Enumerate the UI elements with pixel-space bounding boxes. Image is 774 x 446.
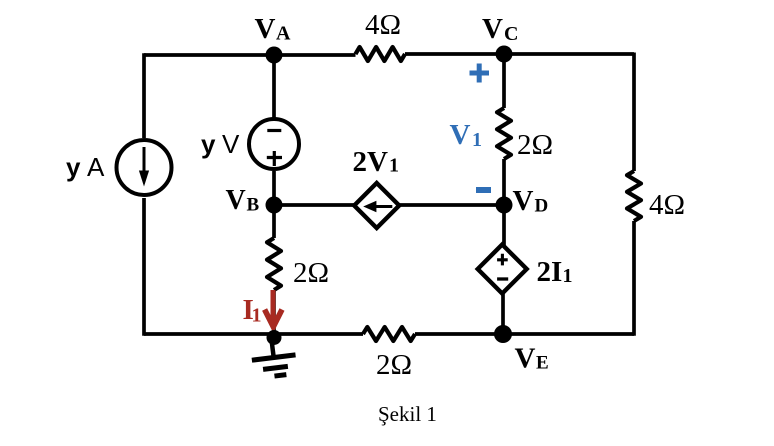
svg-text:2V: 2V xyxy=(353,146,389,178)
wire resistor to ground node xyxy=(272,290,276,334)
svg-text:1: 1 xyxy=(563,265,573,287)
label 2I1 xyxy=(537,256,573,288)
svg-text:B: B xyxy=(247,195,260,216)
label VC xyxy=(482,13,518,45)
svg-text:2Ω: 2Ω xyxy=(376,349,412,381)
label y A xyxy=(66,152,105,182)
voltage source yV xyxy=(249,119,299,169)
wire left rail lower xyxy=(142,198,146,336)
label 2ohm VB branch xyxy=(293,257,329,289)
resistor 2ohm VB branch xyxy=(267,238,281,290)
svg-text:V: V xyxy=(255,13,276,45)
label 4ohm right xyxy=(649,189,685,221)
svg-text:2Ω: 2Ω xyxy=(293,257,329,289)
label VD xyxy=(513,185,549,217)
wire VB to 2V1 diamond xyxy=(274,203,356,207)
wire top rail right segment xyxy=(405,52,634,56)
node VD xyxy=(496,197,513,214)
wire top rail left segment xyxy=(144,53,356,57)
svg-text:A: A xyxy=(276,23,291,45)
resistor 4ohm top xyxy=(356,47,406,61)
svg-text:C: C xyxy=(504,23,518,45)
svg-text:A: A xyxy=(87,152,105,182)
svg-text:E: E xyxy=(536,353,549,374)
svg-text:y: y xyxy=(66,152,81,182)
svg-text:4Ω: 4Ω xyxy=(365,9,401,41)
wire right rail upper xyxy=(632,53,636,172)
node VA xyxy=(266,47,283,64)
wire 2I1 diamond to VE xyxy=(501,291,505,334)
wire VD to 2I1 diamond xyxy=(502,205,506,247)
dependent source 2V1 xyxy=(354,183,399,228)
node ground junction xyxy=(267,330,282,345)
label 4ohm top xyxy=(365,9,401,41)
svg-text:Şekil 1: Şekil 1 xyxy=(378,402,437,426)
label VE xyxy=(515,343,549,375)
node VE xyxy=(494,325,512,343)
label plus V1 blue xyxy=(470,64,490,83)
label I1 red xyxy=(243,294,262,327)
wire VB down to resistor xyxy=(272,205,276,238)
label 2V1 xyxy=(353,146,400,178)
dependent source 2I1 xyxy=(478,245,527,294)
svg-text:V: V xyxy=(226,185,246,216)
current arrow I1 red xyxy=(265,290,282,327)
svg-text:1: 1 xyxy=(252,305,262,327)
label VA xyxy=(255,13,292,45)
wire bottom rail left segment xyxy=(144,332,363,336)
wire voltage source to VB xyxy=(272,171,276,205)
svg-text:V: V xyxy=(450,119,471,151)
svg-text:V: V xyxy=(513,185,534,217)
svg-text:V: V xyxy=(222,129,240,159)
label 2ohm V1 branch xyxy=(517,129,553,161)
label VB xyxy=(226,185,260,216)
wire VC to resistor V1 xyxy=(502,54,506,108)
svg-text:D: D xyxy=(535,196,549,217)
svg-text:4Ω: 4Ω xyxy=(649,189,685,221)
svg-text:2Ω: 2Ω xyxy=(517,129,553,161)
wire bottom rail right segment xyxy=(415,332,634,336)
resistor 4ohm right xyxy=(627,171,641,221)
resistor 2ohm bottom xyxy=(363,327,415,341)
wire resistor to VD xyxy=(502,159,506,205)
caption Sekil 1 xyxy=(378,402,437,426)
wire left rail upper xyxy=(142,53,146,138)
ground xyxy=(250,337,298,378)
label V1 blue xyxy=(450,119,483,151)
resistor 2ohm V1 branch xyxy=(497,108,511,159)
label minus V1 blue xyxy=(476,187,491,193)
node VB xyxy=(266,197,283,214)
svg-text:V: V xyxy=(515,343,536,375)
node VC xyxy=(496,46,513,63)
svg-text:1: 1 xyxy=(389,155,399,177)
wire 2V1 diamond to VD xyxy=(397,203,504,207)
svg-text:y: y xyxy=(201,129,216,159)
current source yA xyxy=(117,140,172,195)
label 2ohm bottom xyxy=(376,349,412,381)
svg-text:V: V xyxy=(482,13,503,45)
svg-text:2I: 2I xyxy=(537,256,563,288)
svg-text:1: 1 xyxy=(472,129,482,151)
label y V xyxy=(201,129,240,159)
wire VA to voltage source xyxy=(272,55,276,118)
wire right rail lower xyxy=(632,221,636,336)
